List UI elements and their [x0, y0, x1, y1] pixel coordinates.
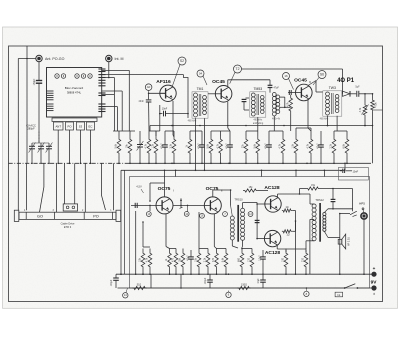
svg-text:+: +	[373, 266, 376, 271]
wire OC45-2 base with capacitor	[288, 90, 296, 95]
node label S2	[172, 57, 186, 86]
wire OC75-1 emitter down	[166, 213, 170, 248]
svg-text:1,2k: 1,2k	[152, 143, 155, 148]
wire link row tops	[113, 130, 135, 132]
wire AC128-2 collector to output transformer	[277, 241, 314, 249]
resistor R10 5,6k	[254, 131, 260, 164]
resistor R23 470	[212, 249, 218, 276]
svg-text:40µF: 40µF	[161, 143, 164, 149]
wire OC45-2 emitter down	[308, 99, 311, 131]
wire resistor down	[372, 93, 374, 163]
output transformer TRS12	[310, 198, 353, 274]
svg-text:TRS10: TRS10	[234, 198, 243, 202]
wire speaker feed to bus	[339, 213, 341, 275]
svg-text:4,7k: 4,7k	[359, 107, 362, 112]
capacitor C4 40nF	[265, 131, 272, 164]
svg-text:04: 04	[199, 72, 203, 76]
wire AC128-2 base	[257, 238, 265, 240]
resistor 470k	[371, 98, 378, 112]
svg-text:Int: Int	[337, 293, 340, 297]
capacitor 10uF rail	[258, 274, 266, 288]
wire to volume pot	[364, 93, 366, 103]
loudspeaker HP 2.5 ohm	[338, 234, 350, 249]
svg-text:S3: S3	[79, 125, 83, 129]
svg-text:TW3: TW3	[329, 86, 336, 90]
svg-text:40nF: 40nF	[198, 143, 201, 149]
capacitor C5 40µF	[317, 131, 324, 164]
tuner block pin wires lower group	[102, 91, 123, 131]
capacitor TM53 side	[242, 98, 249, 110]
label OC75 I	[158, 186, 175, 192]
svg-text:Cadre Drive: Cadre Drive	[61, 222, 75, 226]
wire OC45-2 collector to TW3	[308, 81, 323, 93]
svg-text:ANT: ANT	[55, 125, 61, 129]
wire T2 to detector	[242, 69, 343, 94]
svg-text:2,2k: 2,2k	[204, 257, 207, 262]
transistor AF116	[160, 85, 176, 101]
resistor R15 6,8k	[343, 131, 349, 164]
wire	[148, 93, 150, 99]
terminal Int M	[106, 55, 124, 61]
diode detector	[343, 91, 357, 97]
wires rail feed-throughs	[175, 170, 325, 177]
transistor AC128 upper	[265, 196, 281, 212]
resistor 4.7k osc	[286, 95, 292, 131]
svg-text:CV-ACC: CV-ACC	[26, 123, 36, 127]
capacitor 40nF	[139, 100, 152, 131]
tuning gang variable capacitors	[29, 132, 53, 165]
resistor R28 220	[302, 249, 308, 276]
svg-text:EC: EC	[89, 125, 93, 129]
resistor 15k feedback	[243, 186, 268, 192]
node label T2	[230, 65, 242, 84]
node label 16	[283, 73, 294, 90]
wire AF116 emitter down	[172, 101, 174, 137]
svg-text:9V: 9V	[371, 280, 378, 286]
svg-text:3,3k: 3,3k	[170, 143, 173, 148]
svg-text:6,8k: 6,8k	[343, 143, 346, 148]
svg-text:40nF: 40nF	[226, 143, 229, 149]
svg-text:5µF: 5µF	[355, 85, 360, 88]
resistor R25 680	[238, 249, 244, 276]
svg-text:5,6k: 5,6k	[254, 143, 257, 148]
svg-text:II: II	[221, 188, 223, 192]
capacitor C1 40µF	[161, 131, 168, 164]
wire driver secondary to row	[241, 247, 243, 249]
transistor OC75 second	[204, 197, 221, 214]
wire osc tap	[284, 107, 291, 109]
svg-text:40µF: 40µF	[187, 255, 190, 261]
IF transformer TM53	[250, 87, 266, 121]
wire emitters common to bus	[292, 211, 296, 276]
wire jog	[156, 131, 160, 136]
node 10	[184, 212, 189, 217]
svg-text:280pF: 280pF	[27, 127, 35, 131]
label antifading	[253, 122, 264, 125]
dial drive assembly	[14, 204, 120, 229]
label HP5	[359, 202, 365, 206]
svg-text:51Ω: 51Ω	[137, 284, 142, 287]
resistor R21 10k	[195, 249, 201, 276]
battery 9V terminals	[371, 266, 378, 296]
node 7	[223, 212, 228, 217]
wire OC45-1 emitter down	[227, 102, 230, 131]
resistor R22 2,2k	[204, 249, 210, 276]
resistor emitter upper 1 ohm	[282, 207, 292, 212]
resistor R27 100	[282, 249, 288, 276]
node 14	[123, 288, 128, 298]
transistor OC45 second	[296, 84, 313, 101]
wire OC45-1 base	[208, 93, 216, 95]
resistor R24 5,6k	[222, 249, 228, 276]
svg-text:antifading: antifading	[253, 122, 264, 125]
capacitor 47pF	[268, 80, 280, 93]
svg-text:T2: T2	[236, 67, 240, 71]
resistor R19 470	[172, 249, 178, 276]
wire antenna input	[18, 58, 36, 60]
svg-text:470k: 470k	[374, 102, 377, 108]
trimmer capacitor	[137, 131, 144, 164]
svg-text:Bloc d'accord: Bloc d'accord	[65, 86, 84, 90]
wire to tuning gang	[38, 88, 40, 143]
svg-text:TM53: TM53	[253, 87, 262, 91]
earphone jack HP5	[340, 208, 367, 219]
tuner terminal strip ANT PO S3 EC	[52, 118, 97, 130]
wire TW3 left down	[327, 116, 329, 126]
label AF116	[156, 79, 171, 85]
wire links audio row	[170, 212, 307, 252]
resistor 51 ohm rail	[132, 284, 147, 290]
resistor R5 3,3k	[170, 131, 176, 164]
svg-text:OC45: OC45	[212, 79, 225, 85]
svg-text:ETR 3: ETR 3	[64, 225, 72, 229]
svg-text:16: 16	[284, 74, 288, 78]
capacitor 150pF	[33, 76, 42, 88]
wire driver to AC128 bases with capacitor	[255, 203, 260, 240]
resistor R16 10k	[139, 249, 145, 276]
svg-text:4,7k: 4,7k	[145, 143, 148, 148]
label AC128 lower	[265, 250, 281, 256]
svg-text:470: 470	[172, 257, 175, 262]
svg-text:10nF: 10nF	[162, 107, 168, 110]
svg-text:Ant. PO-GO: Ant. PO-GO	[45, 57, 65, 61]
bus emitter rail	[116, 273, 374, 275]
svg-text:4,7k: 4,7k	[279, 143, 282, 148]
svg-text:4,7k: 4,7k	[146, 257, 149, 262]
svg-text:5,6k: 5,6k	[222, 257, 225, 262]
wire feed to TM1	[184, 75, 189, 118]
svg-text:AC128: AC128	[264, 185, 280, 191]
resistor R11 4,7k	[279, 131, 285, 164]
svg-text:4,5V: 4,5V	[136, 185, 142, 189]
wires ground bus to dial	[18, 59, 113, 213]
audio amplifier enclosure box	[130, 177, 370, 288]
wires terminal strip to ground bus	[57, 130, 91, 164]
capacitor C6 40µF	[187, 250, 194, 275]
svg-text:10µF: 10µF	[259, 255, 262, 261]
wire bias vertical	[159, 105, 161, 131]
label CV-ACC 280pF	[26, 123, 36, 130]
resistor R6 1k	[186, 131, 192, 164]
wire coupling OC75-1 to OC75-2	[173, 205, 204, 212]
node label 04	[197, 70, 207, 85]
label OC45 I	[212, 79, 228, 85]
capacitor after diode	[355, 85, 372, 97]
wire pot to AGC line	[364, 118, 366, 127]
resistor R17 4,7k	[146, 249, 152, 276]
label 4.5V test point	[136, 185, 143, 194]
wires TM1 through bus to rail	[195, 157, 206, 171]
svg-text:S6: S6	[320, 73, 324, 77]
svg-text:150Ω: 150Ω	[241, 284, 247, 287]
resistor R4 1,2k	[152, 131, 158, 164]
resistor R26 120	[248, 249, 254, 276]
svg-text:4,7k: 4,7k	[286, 101, 289, 106]
wire AC128-1 base	[257, 203, 265, 205]
driver transformer TRS10	[230, 190, 257, 248]
resistor R18 1k	[165, 249, 171, 276]
wires TM1 bottom	[196, 118, 205, 157]
wire AC128-1 collector to output transformer	[278, 194, 315, 204]
ground bus	[9, 163, 372, 165]
resistor 150 ohm rail	[237, 284, 251, 290]
wire link segments component row	[149, 128, 347, 131]
wire OC75-2 collector to driver	[213, 189, 232, 197]
filter box top right with 10nF capacitor	[339, 167, 369, 180]
svg-text:OC75: OC75	[206, 186, 219, 192]
capacitor C7 10µF	[259, 250, 266, 275]
label OC45 II	[294, 78, 311, 84]
IF transformer TM1	[188, 87, 208, 122]
svg-text:HP 2,5Ω: HP 2,5Ω	[349, 237, 351, 246]
bus negative rail left	[118, 287, 335, 289]
capacitor 100uF rail mid	[205, 274, 213, 288]
resistor R13 4,7k	[307, 131, 313, 164]
svg-text:480 kHz: 480 kHz	[253, 118, 263, 121]
resistor R1 5,6k	[115, 131, 121, 164]
svg-text:40nF: 40nF	[265, 143, 268, 149]
resistor emitter lower 1 ohm	[282, 230, 292, 237]
tuner block pin wires upper bundle	[102, 70, 184, 131]
on-off switch Int	[334, 284, 374, 297]
svg-text:5,6k: 5,6k	[207, 143, 210, 148]
svg-text:1,5k: 1,5k	[292, 143, 295, 148]
svg-text:4,7k: 4,7k	[307, 143, 310, 148]
svg-text:HP5: HP5	[359, 202, 365, 206]
label OC75 II	[206, 186, 223, 192]
node 8	[304, 287, 309, 296]
label AC128 upper	[264, 185, 280, 191]
svg-text:480+4k: 480+4k	[272, 118, 281, 121]
potentiometer volume 4.7k	[359, 103, 368, 118]
wire AF116 base	[148, 93, 166, 95]
resistor R8 4,7k	[216, 131, 222, 164]
transistor AC128 lower	[264, 230, 280, 246]
wire OC75-1 bias and feed	[149, 170, 165, 202]
wire OC45-1 collector	[228, 80, 270, 86]
svg-text:10nF: 10nF	[353, 171, 359, 174]
svg-text:1Ω: 1Ω	[287, 235, 290, 237]
svg-text:AC128: AC128	[265, 250, 281, 256]
node 12	[248, 212, 253, 217]
svg-text:II: II	[309, 80, 311, 84]
svg-text:150pF: 150pF	[33, 78, 36, 85]
svg-text:47pF: 47pF	[274, 87, 280, 90]
resistor R7 5,6k	[207, 131, 213, 164]
transistor OC75 first	[156, 197, 173, 214]
svg-text:470: 470	[212, 257, 215, 262]
resistor R2 15k	[126, 131, 132, 164]
svg-text:OC45: OC45	[294, 78, 307, 84]
svg-text:1Ω: 1Ω	[286, 207, 289, 209]
svg-text:100: 100	[282, 257, 285, 262]
svg-text:±: ±	[373, 292, 375, 296]
capacitor 10nF coupling	[160, 107, 188, 116]
wires between rails	[151, 274, 182, 289]
svg-text:4,7k: 4,7k	[216, 143, 219, 148]
wire TW3 right down	[336, 116, 338, 131]
wire AGC line	[150, 125, 373, 127]
svg-text:10µF: 10µF	[258, 278, 260, 284]
svg-text:4O P1: 4O P1	[337, 78, 355, 84]
wire jack sleeve to bus	[363, 219, 365, 275]
svg-text:GO: GO	[37, 215, 43, 219]
svg-text:Int. M: Int. M	[115, 57, 124, 61]
svg-text:100µF: 100µF	[205, 277, 207, 284]
resistor R9 22k	[242, 131, 248, 164]
wire stub to frame	[373, 109, 383, 111]
transistor OC45 first	[215, 86, 232, 103]
svg-text:PO: PO	[93, 215, 99, 219]
node 6	[226, 291, 231, 298]
svg-text:TRS12: TRS12	[315, 198, 324, 202]
svg-text:40nF: 40nF	[139, 101, 145, 103]
svg-text:120: 120	[248, 257, 251, 262]
wire antenna down	[38, 62, 40, 76]
svg-text:220: 220	[302, 257, 305, 262]
resistor R20 33k	[179, 249, 185, 276]
svg-text:AF116: AF116	[156, 79, 171, 85]
svg-text:680: 680	[238, 257, 241, 262]
resistor 15k tone network	[299, 184, 353, 211]
svg-text:AF: AF	[147, 85, 151, 89]
svg-text:TM1: TM1	[197, 87, 204, 91]
wire osc coil down	[273, 116, 275, 131]
tuner block Bloc d'accord	[47, 68, 106, 118]
capacitor 100uF rail left	[111, 274, 119, 288]
wire bias divider top	[135, 211, 150, 275]
node label S6	[313, 71, 326, 86]
capacitor C2 40nF	[198, 131, 205, 164]
capacitor C3 40nF	[226, 131, 233, 164]
paper noise texture	[0, 0, 1, 1]
wire OC75-1 base with input capacitor	[131, 203, 156, 211]
svg-text:38808 4T4L: 38808 4T4L	[67, 91, 82, 95]
svg-text:100µF: 100µF	[111, 279, 113, 286]
wire supply rail up	[344, 163, 346, 170]
svg-text:2,2k: 2,2k	[330, 143, 333, 148]
capacitor tone 47nF	[331, 188, 336, 210]
resistor R3 4,7k	[145, 131, 151, 164]
wire vertical node to ground bus	[26, 46, 28, 163]
node label AF	[145, 84, 152, 93]
oscillator coil	[272, 93, 285, 121]
svg-text:5,6k: 5,6k	[115, 143, 118, 148]
resistor R14 2,2k	[330, 131, 336, 164]
svg-text:S2: S2	[180, 59, 184, 63]
wire Int M down	[108, 62, 110, 79]
node 16bis	[200, 213, 205, 218]
IF transformer TW3	[320, 86, 342, 120]
resistor R12 1,5k	[292, 131, 298, 164]
wire TM53 bottom	[257, 117, 259, 131]
wire OC75-2 emitter down	[214, 214, 216, 249]
label 4O P1	[337, 78, 355, 84]
wire test arrow preset	[180, 198, 183, 208]
wire AGC end down	[149, 126, 151, 132]
schematic border frame	[9, 46, 383, 302]
node 13	[146, 212, 151, 217]
wire AF supply rail	[120, 170, 345, 275]
svg-text:40µF: 40µF	[317, 143, 320, 149]
antenna terminal Ant PO-GO	[36, 55, 65, 61]
